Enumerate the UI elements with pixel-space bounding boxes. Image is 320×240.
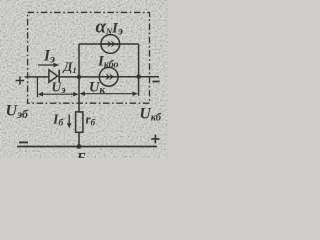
- U_e dimension arrow shaft: [40, 93, 76, 95]
- transistor model boundary (dash-dot frame): [28, 12, 150, 103]
- wire: node B' branch through I_KBO source to collector junction: [118, 76, 159, 78]
- I_e current arrow shaft: [38, 64, 55, 66]
- minus sign at base rail left: [19, 142, 28, 144]
- current source alpha line through: [101, 43, 120, 45]
- I_b current arrow shaft: [68, 115, 70, 125]
- plus sign at base rail right: [151, 135, 159, 143]
- current source alpha_N*I_e circle U-top: [101, 35, 120, 54]
- arrowheads inside alpha source: [107, 41, 112, 48]
- collector junction dot: [136, 74, 141, 79]
- resistor r_b body: [76, 112, 83, 132]
- diode D1 body: [49, 70, 58, 83]
- base junction dot: [77, 144, 82, 149]
- U_k dimension arrow shaft: [83, 93, 135, 95]
- paper background: [0, 0, 168, 158]
- wire: top branch horizontal to alpha-source and right: [79, 43, 139, 45]
- arrowhead of I_e: [54, 63, 59, 68]
- wire: collector right vertical: [138, 44, 140, 96]
- wire: diode cathode to node B': [59, 76, 99, 78]
- arrowhead of I_b down: [67, 123, 72, 128]
- svg-text:Б: Б: [76, 151, 86, 158]
- current source I_KBO line through: [99, 76, 118, 78]
- U_k arrow left head: [80, 91, 85, 96]
- node B' junction dot: [77, 75, 81, 79]
- minus sign at collector terminal: [152, 81, 159, 83]
- U_e arrow left head: [38, 92, 43, 97]
- voltage tick left of U_e arrow: [36, 77, 38, 97]
- wire: resistor bottom lead to base wire: [78, 132, 80, 146]
- plus sign at emitter terminal: [16, 76, 24, 84]
- current source I_KBO circle: [99, 67, 118, 86]
- arrowheads inside I_KBO source: [106, 73, 111, 80]
- U_k arrow right head: [133, 91, 138, 96]
- U_e arrow right head: [73, 92, 78, 97]
- wire: emitter lead into diode anode: [25, 76, 50, 78]
- wire: bottom base rail: [17, 146, 157, 148]
- diode D1 cathode bar: [58, 70, 60, 83]
- wire: vertical from top branch corner down through node B' to resistor: [78, 44, 80, 112]
